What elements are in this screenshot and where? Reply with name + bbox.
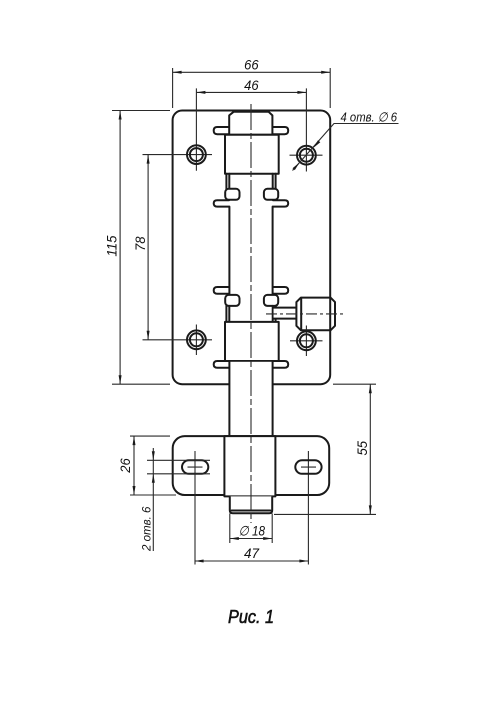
dim 66 line <box>173 71 331 73</box>
bolt end <box>230 496 272 513</box>
dim dia18 extension lines <box>230 514 272 544</box>
hole bottom-left <box>187 330 206 349</box>
guide walls mid <box>226 306 275 322</box>
dim 46 line <box>196 91 306 93</box>
bolt rod lower segment <box>230 362 272 436</box>
main plate <box>173 111 331 385</box>
knob stem <box>273 308 296 319</box>
tab upper-right <box>264 189 278 200</box>
svg-text:∅ 18: ∅ 18 <box>239 523 266 538</box>
slot hole left <box>182 460 208 474</box>
wire guide bar A ears <box>214 127 289 134</box>
bar C ears <box>214 287 289 294</box>
svg-text:115: 115 <box>103 235 119 256</box>
dim 6 extension lines <box>147 460 210 474</box>
bolt rod upper segment <box>229 207 272 295</box>
svg-text:66: 66 <box>244 57 259 73</box>
slot hole right <box>295 460 321 474</box>
svg-text:2 отв. 6: 2 отв. 6 <box>140 506 154 552</box>
tab upper-left <box>225 189 239 200</box>
hole bottom-right <box>297 331 316 350</box>
dim 55 line <box>369 384 371 514</box>
knob body <box>296 298 335 331</box>
guide walls upper <box>226 174 275 190</box>
dim 115 line <box>119 111 121 385</box>
hole top-right <box>297 146 316 165</box>
hole bottom-right crosshair <box>290 326 323 357</box>
bar D ears <box>214 361 289 368</box>
hole bottom-left crosshair <box>143 325 213 356</box>
dim 47 line <box>195 560 309 562</box>
bar B ears <box>214 200 289 206</box>
slot right crosshair <box>301 451 316 565</box>
keeper bridge <box>224 436 275 496</box>
svg-text:Рис. 1: Рис. 1 <box>228 606 274 627</box>
svg-text:78: 78 <box>132 236 148 251</box>
keeper plate <box>173 436 330 495</box>
guide body mid <box>225 322 279 361</box>
tab mid-left <box>225 295 239 306</box>
knob centerline <box>266 313 343 315</box>
dim 26 extension lines <box>130 436 176 495</box>
dim 55 extension lines <box>274 384 376 514</box>
leader 4 holes dia 6 <box>293 124 399 171</box>
svg-text:26: 26 <box>117 458 133 474</box>
svg-text:4 отв. ∅ 6: 4 отв. ∅ 6 <box>341 109 398 124</box>
dim dia18 line <box>230 538 272 540</box>
dim 66 extension lines <box>173 68 331 108</box>
dim 115 extension lines <box>112 111 170 385</box>
hole top-left <box>187 145 206 164</box>
guide body upper <box>225 135 279 174</box>
dim 78 line <box>147 155 149 340</box>
slot left crosshair <box>188 451 203 565</box>
svg-text:46: 46 <box>244 77 259 93</box>
dim 26 line <box>133 436 135 495</box>
dim 6 line with outside arrows <box>152 448 154 551</box>
tab mid-right <box>264 295 278 306</box>
bolt head cap <box>229 112 272 135</box>
hole top-right crosshair <box>290 88 323 171</box>
centerline bolt axis <box>250 104 252 523</box>
bolt end chamfer line <box>232 510 271 512</box>
svg-text:47: 47 <box>244 545 260 561</box>
svg-text:55: 55 <box>354 441 370 456</box>
knob chamfer lines <box>301 298 330 330</box>
hole top-left crosshair <box>143 88 213 170</box>
